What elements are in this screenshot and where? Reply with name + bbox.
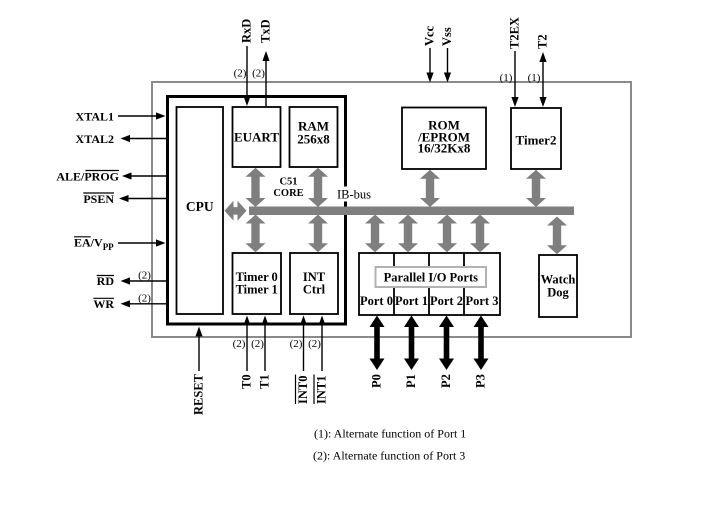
svg-text:Port 3: Port 3 bbox=[466, 294, 499, 308]
pin label ALE/PROG bbox=[56, 169, 119, 183]
svg-text:PSEN: PSEN bbox=[83, 192, 114, 206]
wire WR bbox=[121, 300, 167, 307]
C51 core boundary bbox=[168, 97, 346, 325]
svg-text:(2): (2) bbox=[290, 338, 303, 350]
svg-text:P1: P1 bbox=[404, 374, 418, 388]
svg-text:RD: RD bbox=[97, 274, 115, 288]
bus link RAM bbox=[308, 168, 328, 207]
annotation (2) INT1 bbox=[308, 338, 321, 350]
label IB-bus bbox=[336, 187, 372, 202]
annotation (1) T2 bbox=[528, 72, 541, 84]
svg-text:XTAL1: XTAL1 bbox=[76, 109, 114, 123]
pin label T0 bbox=[240, 374, 254, 389]
svg-text:(1): (1) bbox=[500, 72, 513, 84]
svg-text:Vss: Vss bbox=[440, 27, 454, 46]
annotation (2) WR bbox=[138, 293, 151, 305]
svg-text:IB-bus: IB-bus bbox=[337, 188, 371, 202]
svg-text:T1: T1 bbox=[258, 374, 272, 389]
bus link EUART bbox=[246, 168, 266, 207]
bus link Watch Dog bbox=[547, 217, 567, 255]
block Parallel I/O Ports bbox=[359, 253, 500, 315]
wire ALE/PROG bbox=[122, 172, 166, 179]
svg-text:Watch: Watch bbox=[541, 273, 576, 287]
annotation (2) RD bbox=[138, 269, 151, 281]
pin label Vcc bbox=[423, 25, 437, 46]
wire Vcc bbox=[426, 48, 433, 83]
svg-text:CPU: CPU bbox=[186, 199, 214, 214]
svg-text:Timer 1: Timer 1 bbox=[236, 283, 278, 297]
svg-text:(1): Alternate function of Por: (1): Alternate function of Port 1 bbox=[314, 427, 466, 441]
wire Vss bbox=[444, 48, 451, 83]
footnote 1 bbox=[314, 427, 466, 441]
svg-text:P2: P2 bbox=[439, 374, 453, 388]
pin label P3 bbox=[474, 374, 488, 388]
annotation (2) T0 bbox=[233, 338, 246, 350]
svg-text:INT1: INT1 bbox=[315, 376, 329, 404]
IB-bus bar bbox=[249, 207, 574, 216]
pin label RxD bbox=[240, 19, 254, 43]
svg-text:Ctrl: Ctrl bbox=[303, 283, 326, 297]
wire T1 bbox=[261, 316, 268, 372]
block CPU bbox=[177, 107, 224, 314]
pin label XTAL2 bbox=[76, 132, 114, 146]
bus link ROM bbox=[420, 170, 440, 207]
label Port 1 bbox=[395, 294, 428, 308]
pin arrow P0 bbox=[370, 316, 385, 371]
annotation (1) T2EX bbox=[500, 72, 513, 84]
pin label PSEN bbox=[83, 192, 114, 206]
svg-text:(2): (2) bbox=[138, 269, 151, 281]
pin label T2EX bbox=[508, 17, 522, 49]
wire INT0 bbox=[300, 316, 307, 372]
svg-text:Port 0: Port 0 bbox=[360, 294, 393, 308]
svg-text:P0: P0 bbox=[370, 374, 384, 388]
svg-text:(2): (2) bbox=[138, 293, 151, 305]
svg-text:EUART: EUART bbox=[234, 130, 279, 145]
pin label P0 bbox=[370, 374, 384, 388]
wire T0 bbox=[243, 316, 250, 372]
block Timer 0 / Timer 1 bbox=[233, 253, 282, 314]
bus link Port 3 bbox=[470, 215, 490, 253]
label Port 2 bbox=[430, 294, 463, 308]
pin label RESET bbox=[192, 373, 206, 415]
svg-text:XTAL2: XTAL2 bbox=[76, 132, 114, 146]
svg-text:INT0: INT0 bbox=[296, 376, 310, 404]
svg-text:Port 2: Port 2 bbox=[430, 294, 463, 308]
pin label TxD bbox=[259, 19, 273, 43]
svg-text:TxD: TxD bbox=[259, 19, 273, 43]
pin arrow P3 bbox=[474, 316, 489, 371]
block INT Ctrl bbox=[290, 253, 338, 314]
block RAM 256x8 bbox=[290, 107, 338, 167]
svg-text:RxD: RxD bbox=[240, 19, 254, 43]
label Port 3 bbox=[466, 294, 499, 308]
svg-text:(2): (2) bbox=[234, 68, 247, 80]
label C51 CORE bbox=[273, 177, 303, 200]
svg-text:T2EX: T2EX bbox=[508, 17, 522, 49]
pin label P2 bbox=[439, 374, 453, 388]
wire RxD bbox=[243, 46, 250, 106]
svg-text:T2: T2 bbox=[536, 34, 550, 49]
svg-text:CORE: CORE bbox=[273, 188, 303, 199]
block ROM/EPROM 16/32Kx8 bbox=[402, 108, 486, 170]
wire PSEN bbox=[119, 195, 166, 202]
svg-text:P3: P3 bbox=[474, 374, 488, 388]
pin label T2 bbox=[536, 34, 550, 49]
pin label T1 bbox=[258, 374, 272, 389]
pin arrow P2 bbox=[439, 316, 454, 371]
svg-text:16/32Kx8: 16/32Kx8 bbox=[418, 141, 471, 156]
svg-text:WR: WR bbox=[93, 297, 114, 311]
svg-text:256x8: 256x8 bbox=[297, 132, 330, 147]
svg-text:T0: T0 bbox=[240, 374, 254, 389]
pin label RD bbox=[97, 274, 115, 288]
chip outer boundary bbox=[152, 82, 631, 337]
wire XTAL1 bbox=[118, 112, 166, 119]
footnote 2 bbox=[313, 449, 465, 463]
pin label INT0 bbox=[296, 375, 311, 405]
block EUART bbox=[233, 107, 281, 167]
pin arrow P1 bbox=[404, 316, 419, 371]
pin label Vss bbox=[440, 27, 454, 46]
svg-text:EA/V: EA/V bbox=[74, 236, 103, 250]
wire EA/Vpp bbox=[118, 239, 166, 246]
wire XTAL2 bbox=[121, 135, 167, 142]
svg-text:PP: PP bbox=[103, 242, 114, 252]
bus link INT Ctrl bbox=[308, 215, 328, 253]
pin label P1 bbox=[404, 374, 418, 388]
bus link Port 2 bbox=[437, 215, 457, 253]
svg-text:(2): (2) bbox=[252, 68, 265, 80]
wire T2EX bbox=[511, 51, 518, 107]
svg-text:Port 1: Port 1 bbox=[395, 294, 428, 308]
wire RD bbox=[121, 277, 167, 284]
wire INT1 bbox=[318, 316, 325, 372]
bus link Port 1 bbox=[398, 215, 418, 253]
bus link Timer2 bbox=[526, 170, 546, 207]
svg-text:Parallel I/O Ports: Parallel I/O Ports bbox=[384, 271, 479, 285]
svg-text:(2): (2) bbox=[233, 338, 246, 350]
svg-text:ALE/PROG: ALE/PROG bbox=[56, 169, 119, 183]
annotation (2) RxD bbox=[234, 68, 247, 80]
pin label XTAL1 bbox=[76, 109, 114, 123]
svg-text:Dog: Dog bbox=[547, 286, 569, 300]
svg-text:(2): Alternate function of Por: (2): Alternate function of Port 3 bbox=[313, 449, 465, 463]
svg-text:(2): (2) bbox=[251, 338, 264, 350]
pin label WR bbox=[93, 297, 114, 311]
block Timer2 bbox=[511, 108, 561, 169]
block Watch Dog bbox=[539, 255, 577, 317]
pin label EA/Vpp bbox=[74, 236, 114, 252]
svg-text:Vcc: Vcc bbox=[423, 25, 437, 46]
annotation (2) INT0 bbox=[290, 338, 303, 350]
annotation (2) TxD bbox=[252, 68, 265, 80]
svg-text:RESET: RESET bbox=[192, 373, 206, 415]
bus link CPU bbox=[225, 201, 247, 221]
svg-text:(2): (2) bbox=[308, 338, 321, 350]
bus link Timer 0/1 bbox=[246, 215, 266, 253]
label Port 0 bbox=[360, 294, 393, 308]
pin label INT1 bbox=[314, 375, 329, 405]
wire T2 bbox=[539, 52, 546, 107]
annotation (2) T1 bbox=[251, 338, 264, 350]
wire RESET bbox=[195, 327, 202, 372]
svg-text:C51: C51 bbox=[279, 177, 297, 188]
wire TxD bbox=[262, 51, 269, 107]
bus link Port 0 bbox=[365, 215, 385, 253]
svg-text:(1): (1) bbox=[528, 72, 541, 84]
svg-text:Timer2: Timer2 bbox=[516, 133, 557, 148]
